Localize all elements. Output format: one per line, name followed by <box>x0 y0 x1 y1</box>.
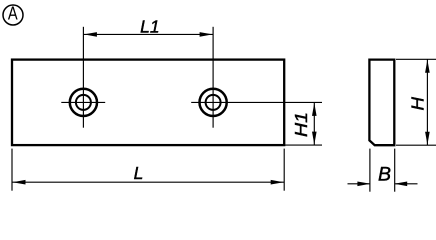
svg-text:L: L <box>134 163 144 183</box>
svg-text:B: B <box>378 164 391 186</box>
svg-text:H: H <box>407 97 427 111</box>
svg-text:L1: L1 <box>140 16 159 36</box>
svg-text:A: A <box>8 4 18 24</box>
svg-text:H1: H1 <box>291 112 311 137</box>
